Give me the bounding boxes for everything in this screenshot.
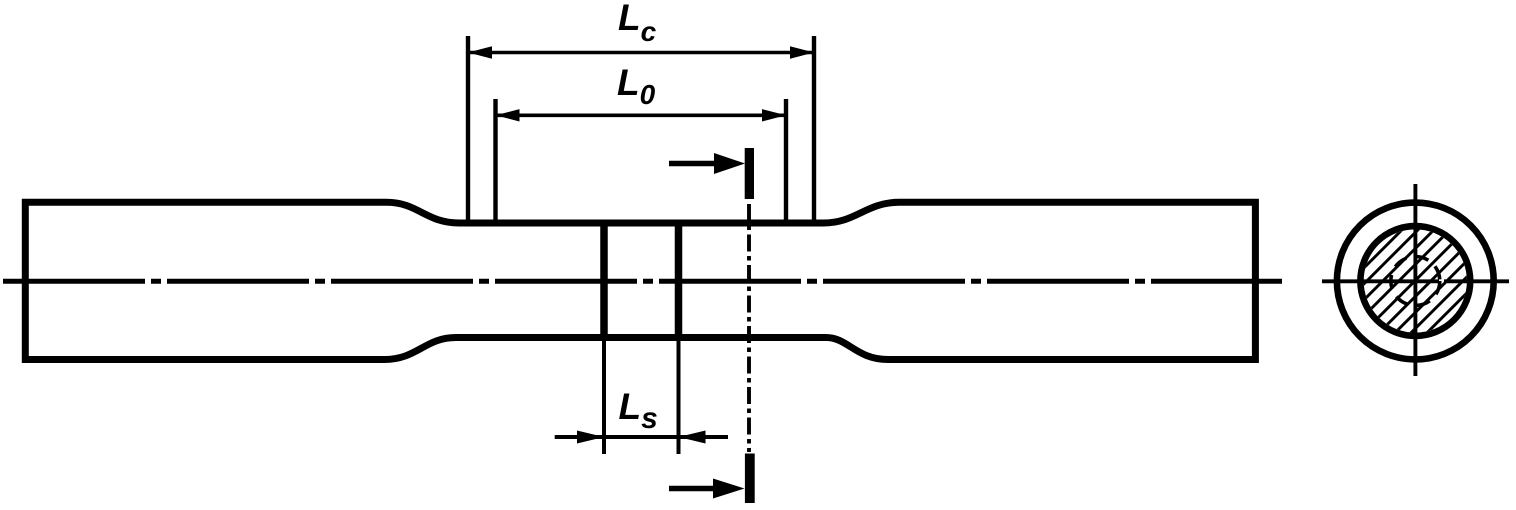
section arrow top [669, 153, 745, 174]
section cut line dash-dot [747, 204, 751, 452]
cross-section inner circle [1360, 226, 1470, 336]
L0 dimension line [496, 109, 787, 121]
Ls dimension line [555, 431, 728, 444]
Lc extension line right [812, 36, 816, 223]
Lc dimension line [468, 46, 814, 58]
section tick top [745, 148, 754, 199]
L0 extension line left [493, 99, 497, 223]
L0 extension line right [784, 99, 788, 223]
horizontal centerline of specimen [3, 279, 1282, 284]
hatching of core [1225, 171, 1516, 391]
circle horizontal centerline [1322, 279, 1509, 283]
gauge mark right extension [677, 341, 681, 454]
cross-section outer circle [1337, 203, 1494, 360]
gauge mark left thick [600, 220, 608, 342]
specimen outline [25, 202, 1255, 359]
section arrow bottom [669, 479, 745, 499]
dashed thread circle [1391, 257, 1440, 306]
gauge mark left extension [602, 341, 606, 454]
gauge mark right thick [675, 220, 683, 342]
Lc extension line left [466, 36, 470, 223]
section tick bottom [745, 454, 755, 504]
circle vertical centerline [1413, 184, 1417, 376]
